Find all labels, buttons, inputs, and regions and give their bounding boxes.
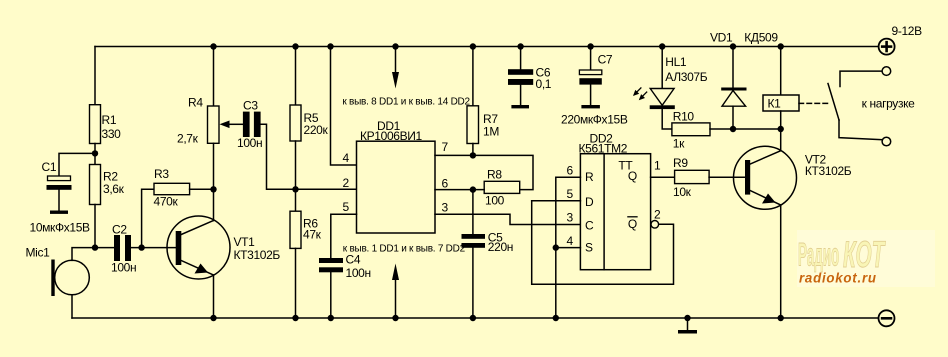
resistor R5	[290, 105, 301, 141]
svg-text:КТ3102Б: КТ3102Б	[805, 164, 852, 178]
svg-text:Q: Q	[628, 169, 637, 183]
resistor R4 (trimmer)	[208, 106, 220, 143]
svg-text:3: 3	[567, 211, 574, 225]
svg-text:100н: 100н	[346, 266, 371, 280]
node pin6 C5 junction	[470, 186, 476, 192]
svg-text:Радио: Радио	[798, 238, 839, 273]
PLACE_LEFT2	[319, 43, 697, 333]
terminal minus	[879, 310, 895, 326]
wire node to R6	[295, 189, 297, 211]
wire rail to C6	[520, 47, 522, 70]
wire pin6 node down to C5	[472, 190, 474, 234]
wire top rail to R1	[94, 47, 96, 105]
wire DD1 pin 3 to DD2 C input	[435, 214, 580, 224]
resistor R3	[154, 183, 190, 194]
svg-text:к выв. 1 DD1 и к выв. 7 DD2: к выв. 1 DD1 и к выв. 7 DD2	[343, 244, 466, 255]
capacitor C4	[319, 258, 343, 263]
wire rail to R7	[472, 47, 474, 106]
ground C6	[511, 105, 529, 108]
relay K1 coil	[763, 95, 799, 111]
PLACE_RIGHT2	[26, 24, 923, 280]
svg-text:к выв. 8 DD1 и к выв. 14 DD2: к выв. 8 DD1 и к выв. 14 DD2	[342, 97, 470, 108]
node R7 rail junction	[470, 43, 476, 49]
wire ground arrow to DD1 pin1 DD2 pin7	[395, 279, 397, 318]
node collector junction	[210, 186, 216, 192]
PLACE_MID2	[532, 154, 745, 321]
svg-text:47к: 47к	[303, 228, 322, 242]
terminal plus 9-12V	[879, 39, 895, 55]
node S input junction	[553, 244, 559, 250]
svg-text:АЛ307Б: АЛ307Б	[665, 70, 707, 84]
LED HL1 АЛ307Б	[650, 89, 674, 106]
wire dashed relay link	[799, 102, 830, 104]
wire DD2 S input	[556, 247, 581, 249]
svg-text:C2: C2	[112, 223, 127, 237]
svg-text:К561ТМ2: К561ТМ2	[579, 142, 628, 156]
wire C5 to bottom rail	[472, 248, 474, 318]
node HL1 rail junction	[659, 43, 665, 49]
svg-text:КД509: КД509	[744, 31, 778, 45]
capacitor C3	[243, 112, 250, 137]
node C5 rail junction	[470, 315, 476, 321]
svg-text:КР1006ВИ1: КР1006ВИ1	[360, 129, 423, 143]
wire C6 to ground	[520, 85, 522, 105]
wire power arrow to DD1 pin8 DD2 pin14	[395, 47, 397, 75]
terminal switch bottom	[882, 137, 891, 146]
svg-text:4: 4	[343, 151, 350, 165]
svg-text:Mic1: Mic1	[26, 246, 51, 260]
svg-text:1M: 1M	[483, 125, 499, 139]
svg-text:2: 2	[654, 208, 661, 222]
svg-text:C3: C3	[243, 99, 258, 113]
svg-text:R: R	[585, 170, 594, 184]
svg-text:4: 4	[567, 234, 574, 248]
svg-text:К1: К1	[768, 97, 782, 111]
transistor VT1	[167, 216, 230, 279]
node VD1 collector junction	[730, 126, 736, 132]
svg-text:100н: 100н	[111, 261, 136, 275]
wire HL1 cathode to R10	[662, 109, 672, 129]
wire R6 to bottom rail	[295, 248, 297, 318]
ground main symbol on bottom rail	[687, 318, 689, 330]
capacitor C5	[462, 234, 486, 239]
svg-text:HL1: HL1	[665, 55, 687, 69]
svg-text:VT1: VT1	[234, 235, 256, 249]
svg-text:R10: R10	[673, 110, 695, 124]
node DD2 pin 2 inversion bubble	[651, 221, 659, 229]
wire VT2 emitter to bottom rail	[780, 205, 782, 318]
resistor R8	[484, 181, 520, 193]
wire base node up to R3	[142, 189, 154, 247]
wire rail to R5	[295, 47, 297, 106]
wire DD1 pin 7 to R8 right	[435, 155, 533, 189]
capacitor C1 (electrolytic)	[48, 176, 71, 181]
svg-text:1к: 1к	[673, 137, 685, 151]
wire node to C2	[95, 247, 114, 249]
svg-text:к нагрузке: к нагрузке	[862, 97, 916, 111]
resistor R7	[467, 106, 479, 144]
node R5-R6 junction	[292, 186, 298, 192]
svg-text:10мкФх15В: 10мкФх15В	[30, 221, 91, 235]
node R6 bottom rail junction	[292, 315, 298, 321]
wire top supply rail	[95, 46, 878, 48]
node R4 top rail junction	[210, 43, 216, 49]
wire R2 bottom to input node	[94, 205, 96, 248]
resistor R10	[672, 123, 710, 136]
svg-text:470к: 470к	[154, 195, 179, 209]
ground C1	[50, 211, 68, 214]
node R1-R2 junction	[92, 150, 98, 156]
wire node into DD1 pin 2	[296, 188, 357, 190]
PLACE_TEXT2	[797, 230, 935, 287]
svg-text:100: 100	[485, 194, 505, 208]
PLACE_DD2b	[633, 39, 895, 327]
resistor R9	[675, 170, 710, 183]
wire R4 wiper from C3	[229, 123, 243, 125]
svg-text:220к: 220к	[304, 123, 329, 137]
svg-text:R1: R1	[102, 113, 117, 127]
wire R1 bottom to R2 top	[94, 144, 96, 165]
wire junction to C1	[59, 153, 95, 176]
wire DD2 D input from feedback	[532, 200, 581, 202]
svg-text:radiokot.ru: radiokot.ru	[799, 270, 877, 285]
node C7 rail junction	[587, 43, 593, 49]
wire DD2 pin 1 to R9	[651, 176, 675, 178]
svg-text:D: D	[585, 195, 594, 209]
svg-text:VD1: VD1	[710, 31, 733, 45]
svg-text:330: 330	[102, 127, 122, 141]
wire rail to HL1	[661, 47, 663, 89]
svg-text:100н: 100н	[237, 136, 262, 150]
resistor R6	[290, 211, 301, 248]
wire DD2 R input to ground column	[556, 177, 581, 318]
svg-text:5: 5	[343, 200, 350, 214]
svg-text:Q: Q	[628, 217, 637, 231]
svg-text:6: 6	[567, 164, 574, 178]
watermark backdrop	[797, 230, 935, 287]
svg-text:10к: 10к	[673, 185, 692, 199]
wire R5 bottom to node	[295, 141, 297, 189]
svg-text:R8: R8	[487, 168, 502, 182]
svg-text:9-12В: 9-12В	[892, 24, 923, 38]
node K1 collector junction	[778, 126, 784, 132]
svg-text:R4: R4	[188, 96, 203, 110]
terminal switch top	[882, 67, 891, 76]
wire rail to DD1 pin 4	[331, 47, 357, 166]
wire bottom common rail	[72, 317, 878, 319]
transistor VT2	[734, 146, 797, 209]
svg-text:S: S	[585, 241, 593, 255]
wire C3 to R5 node	[261, 124, 296, 189]
node power arrow rail junction	[392, 43, 398, 49]
wire R10 to collector node	[710, 128, 781, 130]
svg-text:0,1: 0,1	[536, 77, 552, 91]
svg-text:2,7к: 2,7к	[177, 132, 199, 146]
wire rail to C7	[590, 47, 592, 71]
wire DD1 pin 5 to C4	[331, 214, 357, 258]
switch K1 contacts	[840, 71, 882, 86]
wire R7 bottom to pin7 line	[472, 144, 474, 156]
wire C7 to ground	[590, 85, 592, 105]
node VT1 emitter rail junction	[210, 315, 216, 321]
node VD1 rail junction	[730, 43, 736, 49]
node ground arrow rail junction	[392, 315, 398, 321]
svg-text:C4: C4	[346, 253, 361, 267]
node RS column rail junction	[553, 315, 559, 321]
svg-text:R3: R3	[154, 167, 169, 181]
wire VT1 emitter to bottom rail	[213, 275, 215, 318]
node R5 top rail junction	[292, 43, 298, 49]
svg-text:7: 7	[442, 140, 449, 154]
wire C4 to bottom rail	[330, 272, 332, 318]
wire R9 to VT2 base	[709, 176, 745, 178]
resistor R1	[90, 105, 101, 144]
capacitor C7 (electrolytic)	[579, 70, 601, 75]
svg-text:C: C	[585, 219, 594, 233]
svg-text:2: 2	[343, 176, 350, 190]
wire node to microphone	[72, 248, 95, 261]
svg-text:КТ3102Б: КТ3102Б	[234, 248, 281, 262]
svg-text:3: 3	[442, 201, 449, 215]
svg-text:220мкФх15В: 220мкФх15В	[561, 113, 628, 127]
node input junction	[92, 244, 98, 250]
wire VT1 collector up	[213, 189, 215, 220]
resistor R2	[90, 165, 101, 205]
svg-text:6: 6	[442, 177, 449, 191]
capacitor C6	[508, 69, 533, 75]
wire C1 to ground	[58, 190, 60, 211]
capacitor C2	[114, 235, 120, 261]
wire feedback Q-bar to D	[532, 201, 674, 284]
node pin7 R7 junction	[470, 152, 476, 158]
node K1 rail junction	[778, 43, 784, 49]
node VT2 emitter rail junction	[778, 315, 784, 321]
node C4 rail junction	[328, 315, 334, 321]
svg-text:5: 5	[567, 187, 574, 201]
wire VD1 anode to collector node	[732, 106, 734, 129]
wire rail to R4	[213, 47, 215, 107]
svg-text:C7: C7	[598, 53, 613, 67]
wire rail to K1	[780, 47, 782, 96]
op-amp U-DD1 timer КР1006ВИ1 box	[357, 141, 436, 233]
wire R4 bottom to collector node	[213, 143, 215, 189]
wire R3 to collector node	[190, 188, 214, 190]
svg-text:3,6к: 3,6к	[103, 182, 125, 196]
microphone Mic1	[55, 260, 90, 295]
wire C2 to VT1 base	[131, 247, 176, 249]
wire VT2 collector up	[780, 129, 782, 151]
wire DD1 pin 6 to R8 left	[435, 189, 484, 191]
wire rail to VD1 cathode	[732, 47, 734, 88]
node pin4 rail junction	[327, 43, 333, 49]
node VT1 base junction	[138, 244, 144, 250]
svg-text:C1: C1	[42, 160, 57, 174]
svg-text:220н: 220н	[488, 240, 513, 254]
wire K1 to collector node	[780, 111, 782, 129]
diode VD1 КД509	[721, 88, 746, 91]
node C6 rail junction	[517, 43, 523, 49]
svg-text:1: 1	[654, 159, 661, 173]
flip-flop DD2 К561ТМ2 box	[580, 154, 650, 270]
svg-text:R9: R9	[673, 156, 688, 170]
wire microphone to bottom rail	[71, 295, 73, 318]
ground C7	[581, 105, 600, 108]
